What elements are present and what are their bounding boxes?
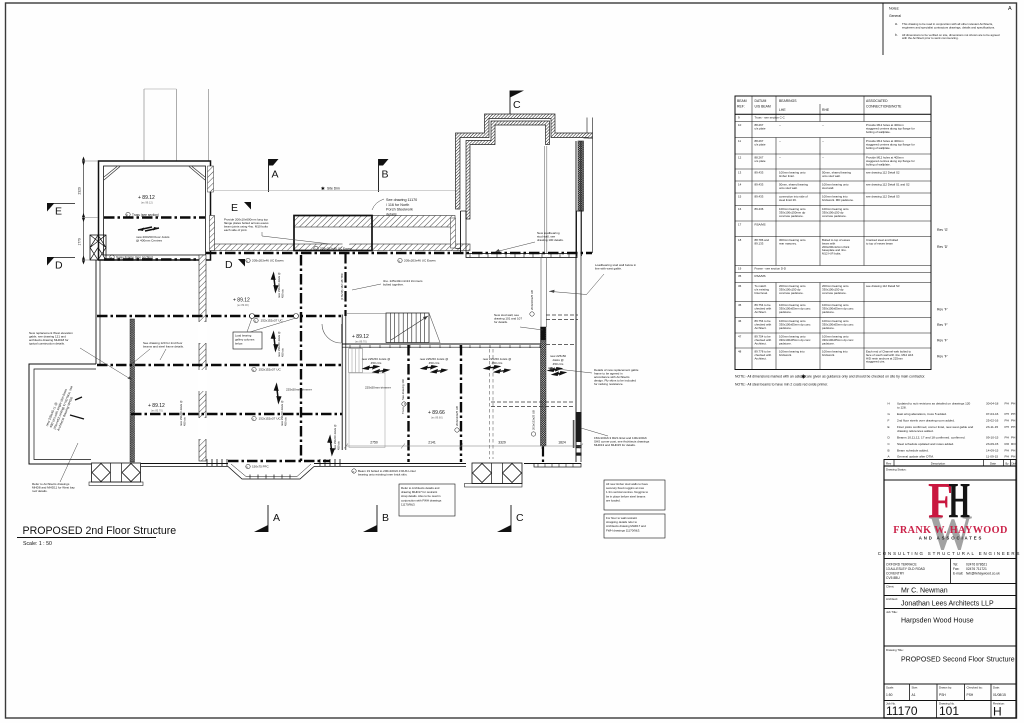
svg-text:35: 35 <box>738 274 742 278</box>
svg-text:13 ALLESLEY OLD ROAD: 13 ALLESLEY OLD ROAD <box>886 567 926 571</box>
svg-text:padstone.: padstone. <box>822 341 835 345</box>
svg-text:PH: PH <box>1005 419 1009 423</box>
svg-text:Beams 10,11,12, 17 and 18 conf: Beams 10,11,12, 17 and 18 confirmed. con… <box>897 436 966 440</box>
svg-text:Updated to suit revisions as d: Updated to suit revisions as detailed on… <box>897 402 971 406</box>
svg-text:47: 47 <box>738 335 742 339</box>
svg-text:152x152x37 UC: 152x152x37 UC <box>259 417 282 421</box>
joist direction arrow <box>138 227 159 231</box>
svg-text:Description: Description <box>931 461 946 465</box>
svg-text:AND ASSOCIATES: AND ASSOCIATES <box>919 536 984 541</box>
svg-text:see drawing 112 Detail S1 and: see drawing 112 Detail S1 and S2 <box>866 183 910 187</box>
svg-text:PH: PH <box>1005 425 1009 429</box>
svg-text:brickwork.: brickwork. <box>822 353 835 357</box>
svg-text:Beam schedule added.: Beam schedule added. <box>897 448 929 452</box>
bottom section markers <box>267 505 269 532</box>
svg-text:DATUM: DATUM <box>755 99 767 103</box>
svg-text:RSA/MS: RSA/MS <box>755 223 766 227</box>
svg-text:C: C <box>513 99 521 111</box>
window gaps in left wall <box>198 322 207 343</box>
svg-text:1779: 1779 <box>78 238 82 246</box>
svg-text:17: 17 <box>738 223 742 227</box>
svg-text:rear masonry.: rear masonry. <box>779 241 797 245</box>
svg-text:F: F <box>888 419 890 423</box>
svg-text:b.: b. <box>895 33 898 37</box>
svg-text:23-09-15: 23-09-15 <box>986 442 999 446</box>
svg-text:18: 18 <box>738 238 742 242</box>
svg-text:Mr C. Newman: Mr C. Newman <box>901 588 948 595</box>
beam 17 line <box>131 413 342 416</box>
svg-text:H: H <box>888 402 890 406</box>
svg-text:PH: PH <box>1005 402 1009 406</box>
svg-text:89.433: 89.433 <box>755 171 764 175</box>
svg-text:23-11-15: 23-11-15 <box>986 425 998 429</box>
svg-text:Notes:: Notes: <box>889 7 899 11</box>
beam 16 line <box>97 364 342 367</box>
svg-text:11170/9&3.: 11170/9&3. <box>401 502 416 506</box>
svg-text:See drawing 11170: See drawing 11170 <box>386 198 417 202</box>
svg-text:--: -- <box>779 123 781 127</box>
svg-text:each side of joint.: each side of joint. <box>224 228 248 232</box>
svg-text:Rev 'F': Rev 'F' <box>937 339 948 343</box>
svg-text:3329: 3329 <box>498 441 506 445</box>
svg-text:(ex 99.12): (ex 99.12) <box>141 201 153 205</box>
svg-text:are given as guidance only and: are given as guidance only and should be… <box>807 375 925 379</box>
svg-text:beams and steel frame details.: beams and steel frame details. <box>143 345 184 349</box>
porch NE corner lines <box>586 118 588 134</box>
svg-text:fwh@fwhaywood.co.uk: fwh@fwhaywood.co.uk <box>966 572 1000 576</box>
hatched pier right of room <box>208 166 214 192</box>
svg-text:lintel level.: lintel level. <box>755 291 769 295</box>
notes panel <box>882 3 884 55</box>
svg-text:PH: PH <box>1011 419 1015 423</box>
svg-text:padstone.: padstone. <box>779 341 792 345</box>
svg-text:roof details.: roof details. <box>32 489 48 493</box>
svg-text:✱: ✱ <box>801 374 806 381</box>
svg-text:✱: ✱ <box>321 186 325 191</box>
svg-text:Truss (see section): Truss (see section) <box>132 213 159 217</box>
svg-text:B: B <box>888 448 890 452</box>
SE corner post dark <box>576 412 582 442</box>
joist direction arrows vertical <box>272 274 278 291</box>
svg-text:CONSULTING STRUCTURAL ENGINEER: CONSULTING STRUCTURAL ENGINEERS <box>878 551 1021 556</box>
svg-text:--: -- <box>822 156 824 160</box>
revision table header <box>884 460 1016 467</box>
svg-text:with the Architect prior to wo: with the Architect prior to work commenc… <box>902 36 959 40</box>
svg-text:Drawing Title:: Drawing Title: <box>886 648 904 652</box>
svg-text:H: H <box>949 474 971 530</box>
svg-text:D: D <box>55 260 63 272</box>
svg-text:A: A <box>272 169 279 181</box>
svg-text:+ 89.12: + 89.12 <box>233 298 250 304</box>
svg-text:Architect.: Architect. <box>755 326 767 330</box>
svg-text:padstone.: padstone. <box>779 310 792 314</box>
mid wall y345 <box>342 343 543 345</box>
svg-text:E: E <box>55 206 62 218</box>
svg-text:LHE: LHE <box>779 108 786 112</box>
svg-text:U/S BEAM: U/S BEAM <box>755 105 771 109</box>
svg-text:16: 16 <box>738 207 742 211</box>
centre bay window <box>472 463 522 484</box>
svg-text:new 150x50 Joists @: new 150x50 Joists @ <box>277 331 281 357</box>
svg-text:2141: 2141 <box>428 441 436 445</box>
svg-text:stud wall.: stud wall. <box>822 186 834 190</box>
svg-text:Site Dim: Site Dim <box>327 187 340 191</box>
eaves frame plate rect <box>294 216 372 251</box>
svg-text:BEARINGS: BEARINGS <box>779 99 797 103</box>
svg-text:concrete padstone.: concrete padstone. <box>779 214 804 218</box>
svg-text:--: -- <box>822 139 824 143</box>
svg-text:Architect.: Architect. <box>755 356 767 360</box>
svg-text:450 cts: 450 cts <box>281 289 285 298</box>
svg-text:REF:: REF: <box>737 105 745 109</box>
svg-text:Rev 'F': Rev 'F' <box>937 355 948 359</box>
svg-text:11-09-15: 11-09-15 <box>986 455 998 459</box>
svg-text:+ 89.12: + 89.12 <box>148 403 165 409</box>
svg-text:East wing alterations, truss 5: East wing alterations, truss 5 added. <box>897 412 947 416</box>
A marker top <box>268 159 270 192</box>
svg-text:89.433: 89.433 <box>755 195 764 199</box>
svg-text:PH: PH <box>1005 412 1009 416</box>
svg-text:Frame - see section D-D: Frame - see section D-D <box>755 267 786 271</box>
svg-text:152x152x37 UC: 152x152x37 UC <box>259 368 282 372</box>
svg-text:Steel schedule updated and not: Steel schedule updated and notes added. <box>897 442 954 446</box>
svg-text:09-10-15: 09-10-15 <box>986 436 999 440</box>
svg-text:19: 19 <box>738 267 742 271</box>
svg-text:Job Title:: Job Title: <box>886 610 898 614</box>
gallery columns note box <box>233 332 262 349</box>
vertical beams lower mid <box>407 345 409 462</box>
svg-text:46: 46 <box>738 319 742 323</box>
svg-text:450 ctrs: 450 ctrs <box>492 361 503 365</box>
loadbearing stud wall x543 <box>540 257 542 327</box>
svg-text:details.: details. <box>386 212 398 216</box>
dashed partition x490 <box>489 349 491 459</box>
PFC beam 21 <box>228 460 330 462</box>
svg-text:A: A <box>1008 6 1012 12</box>
west hatched spine wall <box>130 319 135 462</box>
svg-text:drawing references added.: drawing references added. <box>897 429 934 433</box>
svg-text:225x50mm trimmer: 225x50mm trimmer <box>286 388 312 392</box>
restraint strap note box <box>399 484 455 516</box>
top-left room walls <box>99 161 211 260</box>
svg-text:RSA/MS: RSA/MS <box>755 274 766 278</box>
sway frame 18 <box>90 235 106 260</box>
svg-text:bolting of wallplate.: bolting of wallplate. <box>866 130 891 134</box>
svg-text:timber lintol.: timber lintol. <box>779 174 795 178</box>
svg-text:D: D <box>225 259 233 271</box>
svg-text:A: A <box>273 512 280 524</box>
svg-text:89.436: 89.436 <box>755 207 764 211</box>
svg-text:ASSOCIATED: ASSOCIATED <box>866 99 888 103</box>
svg-text:bolting of wallplate.: bolting of wallplate. <box>866 162 891 166</box>
svg-text:Porch Steelwork: Porch Steelwork <box>386 208 413 212</box>
svg-text:C: C <box>516 512 524 524</box>
porch lower white walls <box>460 211 462 253</box>
left wall of main block below room <box>95 260 97 364</box>
svg-text:bolting of wallplate.: bolting of wallplate. <box>866 146 891 150</box>
svg-text:for racking resistance.: for racking resistance. <box>594 382 624 386</box>
porch right hatched wall <box>578 141 584 211</box>
svg-text:MHD13 and MHD15 for details.: MHD13 and MHD15 for details. <box>594 443 636 447</box>
svg-text:PH: PH <box>1005 436 1009 440</box>
vertical beam stubs top <box>344 253 346 316</box>
svg-text:2329: 2329 <box>78 187 82 195</box>
svg-text:steel lintol 26.: steel lintol 26. <box>779 198 797 202</box>
svg-text:(ex 89.00): (ex 89.00) <box>237 303 249 307</box>
svg-text:new 150x50 Joists @: new 150x50 Joists @ <box>333 424 337 450</box>
svg-text:concrete padstone.: concrete padstone. <box>779 291 804 295</box>
svg-text:see drawing 112 Detail S2: see drawing 112 Detail S2 <box>866 171 900 175</box>
main block left hatched wall <box>199 255 206 461</box>
svg-text:Ckd: Ckd <box>1011 461 1016 465</box>
job number row <box>936 701 938 719</box>
svg-text:Architect.: Architect. <box>755 341 767 345</box>
corner braces <box>104 167 120 181</box>
svg-text:203x100x25 UB: 203x100x25 UB <box>530 290 534 310</box>
svg-text:RO: RO <box>1011 442 1016 446</box>
stud wall below in line with gable (light) <box>543 146 545 253</box>
svg-text:Rev 'D': Rev 'D' <box>937 245 948 249</box>
svg-text:450 cts: 450 cts <box>284 417 288 426</box>
svg-text:PH: PH <box>1005 455 1009 459</box>
svg-text:Date: Date <box>990 461 996 465</box>
svg-text:--: -- <box>779 156 781 160</box>
svg-text:onto stud wall.: onto stud wall. <box>779 186 798 190</box>
svg-text:Scale: 1 : 50: Scale: 1 : 50 <box>23 541 52 547</box>
svg-text:CONNECTIONS/NOTE: CONNECTIONS/NOTE <box>866 105 902 109</box>
svg-text:11: 11 <box>738 139 741 143</box>
svg-text:101: 101 <box>939 704 959 718</box>
svg-text:Drawing Status:: Drawing Status: <box>886 468 907 472</box>
svg-text:PH: PH <box>1011 436 1015 440</box>
svg-text:u/s plate: u/s plate <box>755 142 766 146</box>
svg-text:02476 678621: 02476 678621 <box>966 563 987 567</box>
west bay window <box>92 463 141 482</box>
svg-text:205x203x46 UC Eaves: 205x203x46 UC Eaves <box>320 247 352 251</box>
svg-text:225x50mm trimmer: 225x50mm trimmer <box>365 386 391 390</box>
svg-text:PROPOSED Second Floor Structur: PROPOSED Second Floor Structure <box>901 657 1015 664</box>
svg-text:RO: RO <box>1005 442 1010 446</box>
canted south bay <box>228 467 314 480</box>
north porch inner hatched skin <box>466 121 550 219</box>
svg-text:Tel:: Tel: <box>953 563 958 567</box>
svg-text:89.133: 89.133 <box>755 241 764 245</box>
svg-text:89.433: 89.433 <box>755 183 764 187</box>
svg-text:450 cts: 450 cts <box>183 417 187 426</box>
svg-text:Harpsden Wood House: Harpsden Wood House <box>901 618 974 625</box>
svg-text:(ex 89.60): (ex 89.60) <box>431 416 443 420</box>
svg-text:10: 10 <box>738 123 742 127</box>
strapping note box <box>604 514 665 538</box>
svg-text:COVENTRY: COVENTRY <box>886 572 905 576</box>
svg-text:PH: PH <box>1011 425 1015 429</box>
E marker left <box>47 203 55 212</box>
porch bottom stud wall <box>466 254 577 258</box>
svg-text:for details.: for details. <box>494 320 508 324</box>
svg-text:Scale:: Scale: <box>886 686 894 690</box>
svg-text:PH: PH <box>1011 412 1015 416</box>
svg-text:E: E <box>888 425 890 429</box>
svg-text:M12 H.R bolts.: M12 H.R bolts. <box>822 251 841 255</box>
svg-text:PSH: PSH <box>939 693 946 697</box>
svg-text:25-02-16: 25-02-16 <box>986 419 999 423</box>
right wall x576 <box>575 141 577 462</box>
noggins note box <box>604 480 665 510</box>
svg-text:(ex 89.70): (ex 89.70) <box>355 340 367 344</box>
svg-text:1:50: 1:50 <box>886 693 893 697</box>
svg-text:onto stud wall.: onto stud wall. <box>822 174 841 178</box>
svg-text:brickwork. MD padstone.: brickwork. MD padstone. <box>822 198 854 202</box>
dashed partition lines NE <box>546 314 578 316</box>
svg-text:+ 89.66: + 89.66 <box>428 410 445 416</box>
svg-text:02476 711721: 02476 711721 <box>966 567 987 571</box>
svg-text:45: 45 <box>738 303 742 307</box>
svg-text:Drawn by:: Drawn by: <box>939 686 952 690</box>
vertical beam line x301 <box>300 255 302 461</box>
svg-text:General: General <box>889 14 901 18</box>
truss 9 line <box>104 216 205 219</box>
svg-text:H: H <box>993 705 1002 719</box>
main eaves beam line <box>206 252 592 255</box>
svg-text:Rev 'F': Rev 'F' <box>937 323 948 327</box>
svg-text:drawing 100 details.: drawing 100 details. <box>537 238 564 242</box>
dashed mid wall east <box>546 344 576 346</box>
svg-text:B: B <box>382 169 389 181</box>
svg-text:padstone.: padstone. <box>822 326 835 330</box>
svg-text:450 cts: 450 cts <box>337 441 341 450</box>
svg-text:Sway Frame (see section): Sway Frame (see section) <box>116 256 153 260</box>
svg-text:OXFORD TERRACE: OXFORD TERRACE <box>886 563 918 567</box>
svg-text:Rev: Rev <box>886 461 892 465</box>
svg-text:203x133x25 UB: 203x133x25 UB <box>532 410 536 430</box>
svg-text:/ 116 for North: / 116 for North <box>386 203 409 207</box>
svg-text:Client:: Client: <box>886 585 894 589</box>
svg-text:--: -- <box>822 123 824 127</box>
svg-text:NOTE:- All steel beams to have: NOTE:- All steel beams to have min 2 coa… <box>735 383 828 387</box>
svg-text:36: 36 <box>738 284 742 288</box>
C marker top <box>510 91 524 98</box>
svg-text:(17b/18) 182 UB TBC: (17b/18) 182 UB TBC <box>340 273 344 300</box>
svg-text:12: 12 <box>738 156 742 160</box>
svg-text:below.: below. <box>235 342 243 346</box>
stair hall wall x342 <box>341 315 343 451</box>
svg-text:Checked by:: Checked by: <box>967 686 983 690</box>
eaves band hatched walls <box>210 244 470 251</box>
svg-text:u/s plate: u/s plate <box>755 159 766 163</box>
svg-text:line with west gable.: line with west gable. <box>595 267 622 271</box>
svg-text:Date:: Date: <box>993 686 1000 690</box>
leader eaves <box>262 232 330 244</box>
svg-text:RHE: RHE <box>822 108 830 112</box>
svg-text:brickwork.: brickwork. <box>779 353 792 357</box>
svg-text:--: -- <box>779 139 781 143</box>
svg-text:A1: A1 <box>912 693 916 697</box>
svg-text:FRANK W. HAYWOOD: FRANK W. HAYWOOD <box>893 525 1007 536</box>
svg-text:01/08/15: 01/08/15 <box>993 693 1006 697</box>
svg-text:staggered ctrs.: staggered ctrs. <box>866 360 885 364</box>
svg-text:padstone.: padstone. <box>822 310 835 314</box>
svg-text:1824: 1824 <box>558 441 566 445</box>
svg-text:General update after DTM.: General update after DTM. <box>897 455 934 459</box>
svg-text:Architect:: Architect: <box>886 597 898 601</box>
svg-text:Truss - see section C-C: Truss - see section C-C <box>755 116 785 120</box>
svg-text:to 128.: to 128. <box>897 406 907 410</box>
dimension chain bottom <box>346 445 581 447</box>
svg-text:+ 89.12: + 89.12 <box>138 195 155 201</box>
beam schedule table <box>735 96 931 370</box>
svg-text:450 ctrs: 450 ctrs <box>371 361 382 365</box>
under-stair cupboard <box>349 349 363 373</box>
svg-text:PH: PH <box>1005 448 1009 452</box>
west wing outline <box>29 364 96 464</box>
svg-text:PH: PH <box>1011 448 1015 452</box>
svg-text:450 ctrs: 450 ctrs <box>553 362 564 366</box>
svg-text:PH: PH <box>1011 455 1015 459</box>
B marker top <box>378 159 380 192</box>
svg-text:concrete padstone.: concrete padstone. <box>822 214 847 218</box>
svg-text:Truss: Truss <box>401 407 405 414</box>
D marker left <box>47 257 55 266</box>
title block <box>884 466 1016 718</box>
svg-text:152x152x37 UC: 152x152x37 UC <box>261 319 284 323</box>
svg-text:PROPOSED 2nd Floor Structure: PROPOSED 2nd Floor Structure <box>23 525 177 537</box>
svg-text:205x203x46 UC Eaves: 205x203x46 UC Eaves <box>252 259 284 263</box>
beam 19 lintel note <box>352 469 356 473</box>
svg-text:u/s plate: u/s plate <box>755 126 766 130</box>
svg-text:15: 15 <box>738 195 742 199</box>
svg-text:E: E <box>231 202 238 214</box>
svg-text:48: 48 <box>738 350 742 354</box>
svg-text:E-mail:: E-mail: <box>953 572 963 576</box>
svg-text:30-04-18: 30-04-18 <box>986 402 999 406</box>
svg-text:PSH: PSH <box>967 693 974 697</box>
svg-text:Rev 'F': Rev 'F' <box>937 308 948 312</box>
svg-text:(ex 85.70): (ex 85.70) <box>151 409 163 413</box>
svg-text:2750: 2750 <box>370 441 378 445</box>
south wall + bays <box>29 463 91 465</box>
svg-text:07-04-16: 07-04-16 <box>986 412 999 416</box>
svg-text:450 ctrs: 450 ctrs <box>429 361 440 365</box>
svg-text:see drawing 112 Detail S3: see drawing 112 Detail S3 <box>866 195 900 199</box>
svg-text:Fax:: Fax: <box>953 567 959 571</box>
svg-text:2nd floor steels over drawing: 2nd floor steels over drawing room added… <box>897 419 955 423</box>
svg-text:14-09-15: 14-09-15 <box>986 448 999 452</box>
svg-text:padstone.: padstone. <box>779 326 792 330</box>
svg-text:BEAM: BEAM <box>737 99 747 103</box>
beam 15 line <box>97 315 342 318</box>
svg-text:a.: a. <box>895 22 898 26</box>
svg-text:engineers and specialist contr: engineers and specialist contractors dra… <box>902 25 995 29</box>
west room rotated joist note <box>45 382 78 432</box>
dimension line left <box>83 161 85 260</box>
svg-text:11170: 11170 <box>886 704 918 718</box>
svg-text:+ 89.12: + 89.12 <box>352 334 369 340</box>
svg-text:Rev 'G': Rev 'G' <box>937 228 948 232</box>
staircase <box>386 313 429 343</box>
svg-text:see drawing 112 Detail S3: see drawing 112 Detail S3 <box>866 284 900 288</box>
svg-text:Jonathan Lees Architects LLP: Jonathan Lees Architects LLP <box>901 601 994 608</box>
svg-text:NOTE:- All dimensions marked w: NOTE:- All dimensions marked with an ast… <box>735 375 807 379</box>
svg-text:are loaded.: are loaded. <box>606 498 621 502</box>
north porch outer hatched skin <box>456 114 593 209</box>
door arc stair hall <box>322 324 341 343</box>
svg-text:@ 400mm Centres: @ 400mm Centres <box>136 239 162 243</box>
svg-text:205x203x46 UC Eaves: 205x203x46 UC Eaves <box>404 259 436 263</box>
svg-text:new 150x50 Joists @: new 150x50 Joists @ <box>277 272 281 298</box>
svg-text:14: 14 <box>738 183 742 187</box>
svg-text:Size:: Size: <box>912 686 919 690</box>
svg-text:PH: PH <box>1011 402 1015 406</box>
